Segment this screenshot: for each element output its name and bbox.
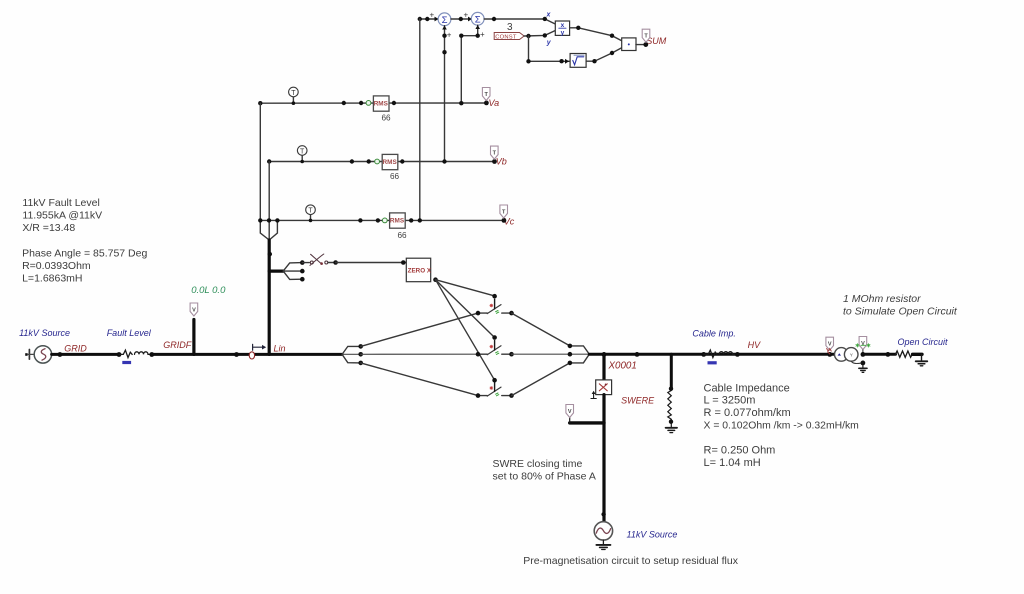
node breaker C control xyxy=(492,378,497,383)
node xyxy=(861,361,866,366)
node zero x output xyxy=(433,277,438,282)
node xyxy=(267,159,271,163)
rms block A xyxy=(373,96,389,111)
node xyxy=(358,361,363,366)
node xyxy=(610,51,614,55)
node xyxy=(292,101,296,105)
phase wire to breaker B xyxy=(361,353,478,355)
node rms C output xyxy=(409,218,413,222)
ground transformer neutral xyxy=(859,368,867,372)
breaker BRKc xyxy=(478,382,512,396)
multiplier block U5 xyxy=(622,38,636,51)
node xyxy=(350,159,354,163)
node phase a tap xyxy=(258,218,262,222)
node rms B output xyxy=(400,159,404,163)
voltmeter stub GRIDF xyxy=(192,320,195,355)
svg-text:y: y xyxy=(561,30,565,37)
rms block B xyxy=(382,154,398,169)
node xyxy=(559,59,563,63)
svg-text:+: + xyxy=(447,31,452,40)
arrowhead up into U1 xyxy=(442,26,447,30)
svg-text:Open Circuit: Open Circuit xyxy=(898,337,949,347)
breakout stub to switch fan xyxy=(269,270,283,273)
summer U1 xyxy=(438,13,451,26)
voltmeter stub on SWERE bus xyxy=(570,418,604,423)
svg-text:Fault Level: Fault Level xyxy=(107,328,152,338)
meter tag transformer LV side with tap marks xyxy=(856,337,870,355)
transformer T1 xyxy=(835,348,859,362)
divider output wire to multiplier xyxy=(570,28,622,41)
ammeter Lin xyxy=(249,344,266,359)
node on trunk xyxy=(268,252,272,256)
const block CONST xyxy=(494,33,524,41)
meter tag Vb xyxy=(491,146,499,159)
svg-text:V: V xyxy=(568,409,572,415)
switch fan wires xyxy=(283,263,302,280)
svg-text:3: 3 xyxy=(507,22,513,33)
svg-text:Cable Impedance: Cable Impedance xyxy=(704,382,790,394)
svg-text:SWRE closing time: SWRE closing time xyxy=(493,458,583,470)
arrowhead up into U2 xyxy=(475,25,480,29)
svg-text:11kV Fault Level: 11kV Fault Level xyxy=(22,197,99,209)
svg-text:+: + xyxy=(480,30,485,39)
vertical wire from junction to Va row xyxy=(461,25,477,103)
node breaker A left xyxy=(476,311,481,316)
bus trunk Lin vertical xyxy=(268,240,271,354)
meter tag Vc xyxy=(500,205,508,218)
node xyxy=(459,34,463,38)
svg-text:GRID: GRID xyxy=(64,344,87,354)
node junction with vertical C xyxy=(418,218,422,222)
node xyxy=(602,352,607,357)
node xyxy=(601,512,605,516)
voltmeter T row A xyxy=(289,87,299,103)
svg-text:L= 1.04 mH: L= 1.04 mH xyxy=(704,457,761,469)
node breaker C left xyxy=(476,393,481,398)
node fan c xyxy=(300,277,305,282)
svg-text:to Simulate Open Circuit: to Simulate Open Circuit xyxy=(843,306,958,318)
meter tag SUM xyxy=(642,29,650,42)
node phase c tap xyxy=(275,218,279,222)
node fan b xyxy=(300,269,305,274)
phase breakout trident wires xyxy=(260,103,277,240)
ground below source xyxy=(596,540,610,549)
node xyxy=(526,59,530,63)
svg-text:Lin: Lin xyxy=(274,343,286,353)
svg-text:11kV Source: 11kV Source xyxy=(19,328,70,338)
node xyxy=(576,26,580,30)
svg-text:GRIDF: GRIDF xyxy=(163,340,192,350)
wire switch to ZERO X xyxy=(336,262,407,264)
node junction with vertical B xyxy=(442,159,446,163)
svg-text:Σ: Σ xyxy=(475,14,481,25)
node xyxy=(401,260,406,265)
wire const to divider y input xyxy=(524,31,555,37)
fault level impedance R+L xyxy=(119,350,152,357)
bus GRID segment xyxy=(52,353,119,356)
svg-text:R=0.0393Ohm: R=0.0393Ohm xyxy=(22,260,91,272)
bus X0001 segment xyxy=(589,353,835,356)
svg-text:set to 80% of Phase A: set to 80% of Phase A xyxy=(493,470,596,482)
meter tag Va xyxy=(482,88,490,101)
node xyxy=(459,17,463,21)
rms input port C xyxy=(382,218,387,223)
phase wire to breaker C xyxy=(361,363,478,396)
phase wire to breaker A xyxy=(361,313,478,346)
node xyxy=(568,344,573,349)
svg-text:L=1.6863mH: L=1.6863mH xyxy=(22,273,82,285)
node xyxy=(367,159,371,163)
svg-text:RMS: RMS xyxy=(390,218,405,225)
svg-text:SWERE: SWERE xyxy=(621,395,655,405)
node xyxy=(827,352,832,357)
svg-text:ZERO X: ZERO X xyxy=(408,267,432,274)
node xyxy=(376,218,380,222)
control wire to breaker B xyxy=(436,280,495,338)
svg-text:Σ: Σ xyxy=(442,15,448,26)
svg-text:Phase Angle = 85.757 Deg: Phase Angle = 85.757 Deg xyxy=(22,248,147,260)
node breaker A right xyxy=(509,311,514,316)
svg-text:HV: HV xyxy=(748,340,761,350)
node xyxy=(234,352,239,357)
node xyxy=(300,160,304,164)
node breaker B right xyxy=(509,352,514,357)
svg-text:Cable Imp.: Cable Imp. xyxy=(692,329,736,339)
breaker BRKb xyxy=(478,340,512,354)
transformer neutral wire to ground xyxy=(851,361,863,368)
phase wire breaker A to right fan xyxy=(512,313,570,346)
node xyxy=(635,352,640,357)
svg-text:Pre-magnetisation circuit to s: Pre-magnetisation circuit to setup resid… xyxy=(523,555,739,567)
divider block U3 x/y xyxy=(555,21,569,37)
node xyxy=(342,101,346,105)
resistor 1 MOhm open circuit xyxy=(896,351,923,361)
wire row B (Vb measurement) xyxy=(269,161,494,163)
svg-text:T: T xyxy=(300,148,305,155)
manual switch to zero crossing detector xyxy=(302,254,335,265)
svg-text:+: + xyxy=(464,11,469,20)
node xyxy=(358,344,363,349)
node xyxy=(610,34,614,38)
bus GRIDF segment xyxy=(152,353,342,356)
svg-text:RMS: RMS xyxy=(374,101,389,108)
node at x input xyxy=(543,17,547,21)
svg-text:66: 66 xyxy=(398,231,408,240)
node xyxy=(861,352,866,357)
node xyxy=(149,352,154,357)
svg-text:T: T xyxy=(308,208,313,215)
control arrow at X block xyxy=(591,391,596,399)
svg-text:11kV Source: 11kV Source xyxy=(627,530,678,540)
svg-text:x: x xyxy=(546,12,552,19)
svg-text:66: 66 xyxy=(390,172,400,181)
right phase fan wires xyxy=(570,346,589,363)
node phase b tap xyxy=(267,218,271,222)
resistor branch to ground (SWERE damping) xyxy=(668,354,672,427)
svg-text:X0001: X0001 xyxy=(608,361,637,372)
node xyxy=(592,59,596,63)
meter tag GRIDF voltage xyxy=(190,303,198,316)
rms input port B xyxy=(375,159,380,164)
arrowhead into sqrt xyxy=(565,59,569,64)
node junction with vertical A xyxy=(459,101,463,105)
node Vb terminal xyxy=(492,159,497,164)
breaker BRKa xyxy=(478,299,512,313)
node Vc terminal xyxy=(502,218,507,223)
bus SWERE vertical lower xyxy=(602,395,605,522)
left phase fan wires xyxy=(342,346,361,363)
node breaker B left xyxy=(476,352,481,357)
node rms A output xyxy=(392,101,396,105)
sqrt block U4 xyxy=(570,54,586,68)
phase wire breaker B to right fan xyxy=(512,353,570,355)
svg-text:X/R =13.48: X/R =13.48 xyxy=(22,222,75,234)
cable impedance magnetic core mark xyxy=(708,361,717,364)
zero crossing block ZERO X xyxy=(406,258,432,282)
control wire to breaker C xyxy=(436,280,495,381)
node xyxy=(442,50,446,54)
svg-text:R = 0.077ohm/km: R = 0.077ohm/km xyxy=(704,407,791,419)
ground open circuit resistor xyxy=(916,361,928,366)
svg-text:11.955kA @11kV: 11.955kA @11kV xyxy=(22,209,102,221)
svg-text:+: + xyxy=(430,11,435,20)
vertical wire from U1 bottom to Vb row xyxy=(444,26,446,162)
node xyxy=(526,34,530,38)
arrowhead into U2 xyxy=(468,17,472,22)
wire const node down to sqrt input xyxy=(529,36,571,61)
svg-text:RMS: RMS xyxy=(383,159,398,166)
meter tag SWERE voltage xyxy=(566,405,574,418)
bus HV right segment xyxy=(863,353,896,356)
source 11kV GRID xyxy=(34,346,51,363)
wire into summer U1 xyxy=(420,18,438,20)
node breaker A control xyxy=(492,294,497,299)
sqrt output wire to multiplier xyxy=(586,48,622,61)
node xyxy=(701,352,706,357)
node xyxy=(425,17,429,21)
node xyxy=(492,17,496,21)
node xyxy=(358,218,362,222)
node xyxy=(258,101,262,105)
wire row C (Vc measurement) xyxy=(260,219,504,221)
rms input port A xyxy=(366,101,371,106)
ground for resistor branch xyxy=(666,428,677,433)
node breaker B control xyxy=(492,335,497,340)
svg-text:T: T xyxy=(291,90,296,97)
svg-text:V: V xyxy=(861,341,865,347)
summer U2 xyxy=(471,12,484,25)
node on wire xyxy=(418,17,422,21)
svg-text:Vb: Vb xyxy=(496,157,507,167)
phase wire breaker C to right fan xyxy=(512,363,570,396)
meter tag transformer HV side xyxy=(826,337,834,354)
vertical wire from node A to Vc row xyxy=(419,19,421,220)
arrowhead into U1 xyxy=(435,17,439,22)
node fan a xyxy=(300,260,305,265)
svg-text:y: y xyxy=(546,39,552,46)
svg-text:V: V xyxy=(192,307,196,313)
svg-text:X = 0.102Ohm /km -> 0.32mH/km: X = 0.102Ohm /km -> 0.32mH/km xyxy=(704,421,859,432)
node xyxy=(568,361,573,366)
svg-text:V: V xyxy=(828,342,832,348)
node xyxy=(359,101,363,105)
node xyxy=(309,219,313,223)
node xyxy=(358,352,363,357)
control wire to breaker A xyxy=(436,280,495,296)
svg-text:Va: Va xyxy=(489,98,500,108)
node xyxy=(442,34,446,38)
node xyxy=(669,420,673,424)
node at y input xyxy=(543,33,547,37)
svg-text:L = 3250m: L = 3250m xyxy=(704,395,756,407)
rms block C xyxy=(390,213,406,228)
node xyxy=(669,387,673,391)
node SUM terminal xyxy=(643,42,648,47)
node xyxy=(117,352,122,357)
source 11kV pre-magnetisation xyxy=(594,522,612,540)
multiplier output wire xyxy=(636,44,646,46)
node xyxy=(568,352,573,357)
breaker control block X (SWERE) xyxy=(596,380,612,395)
wire row A (Va measurement) xyxy=(260,102,486,104)
node xyxy=(476,34,480,38)
node xyxy=(886,352,891,357)
node xyxy=(58,352,63,357)
svg-text:66: 66 xyxy=(382,114,392,123)
node breaker C right xyxy=(509,393,514,398)
source terminal plug xyxy=(25,350,34,360)
node xyxy=(735,352,740,357)
wire U1 to U2 xyxy=(451,18,471,20)
cable impedance R+L xyxy=(704,350,738,357)
svg-text:R= 0.250 Ohm: R= 0.250 Ohm xyxy=(704,445,776,457)
bus SWERE vertical upper xyxy=(602,354,605,380)
svg-text:CONST: CONST xyxy=(495,35,517,41)
voltmeter T row B xyxy=(297,146,307,162)
node Va terminal xyxy=(484,101,489,106)
node xyxy=(333,260,338,265)
wire U2 output to divider x input xyxy=(484,19,555,24)
voltmeter T row C xyxy=(306,205,316,221)
svg-text:1 MOhm resistor: 1 MOhm resistor xyxy=(843,293,921,305)
svg-text:0.0L 0.0: 0.0L 0.0 xyxy=(191,285,226,296)
fault level magnetic core mark xyxy=(122,361,131,364)
